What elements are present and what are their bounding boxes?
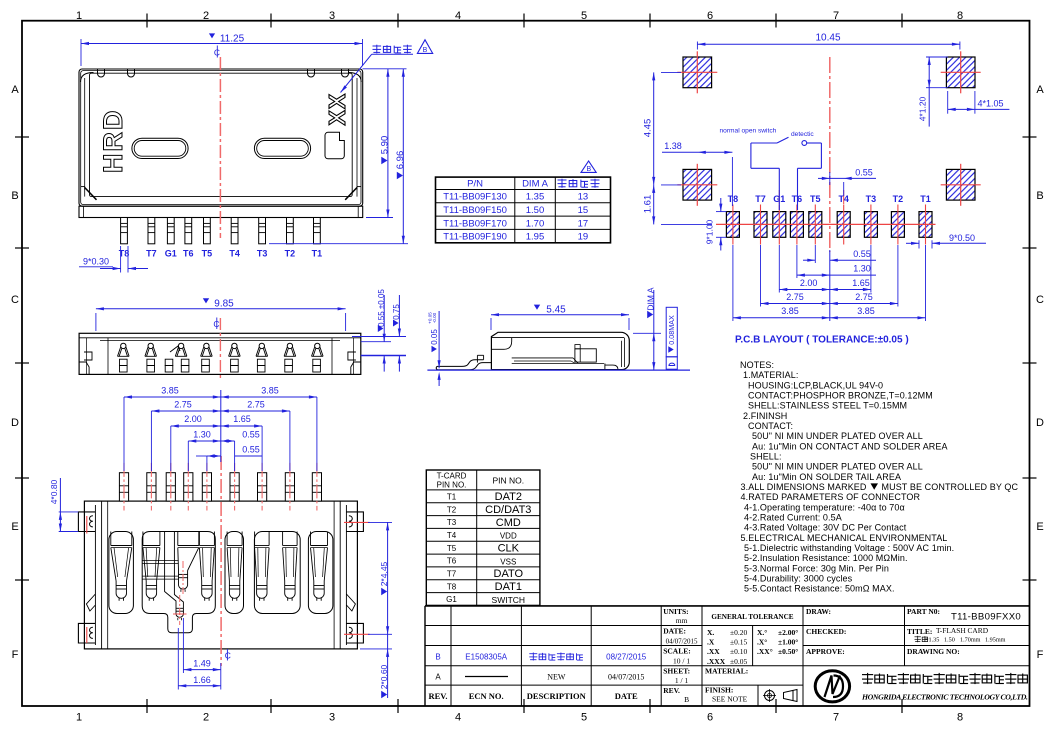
svg-text:T4: T4	[229, 249, 240, 259]
svg-text:T3: T3	[866, 194, 877, 204]
svg-text:4: 4	[455, 10, 461, 22]
svg-text:1.50: 1.50	[526, 205, 545, 216]
svg-text:T1: T1	[312, 249, 323, 259]
svg-text:MATERIAL:: MATERIAL:	[705, 667, 748, 676]
svg-text:E: E	[1036, 521, 1043, 533]
svg-text:T5: T5	[810, 194, 821, 204]
svg-text:T6: T6	[792, 194, 803, 204]
svg-text:.XX: .XX	[707, 647, 720, 656]
svg-text:CLK: CLK	[498, 543, 520, 555]
svg-text:REV.: REV.	[429, 691, 448, 701]
svg-text:T11-BB09F130: T11-BB09F130	[443, 192, 507, 203]
svg-text:5-1.Dielectric withstanding Vo: 5-1.Dielectric withstanding Voltage : 50…	[744, 543, 954, 553]
svg-text:T5: T5	[202, 249, 213, 259]
svg-text:±0.10: ±0.10	[730, 647, 747, 656]
svg-text:T3: T3	[447, 518, 457, 527]
svg-text:.XXX: .XXX	[707, 657, 726, 666]
svg-text:5-2.Insulation Resistance: 100: 5-2.Insulation Resistance: 1000 MΩMin.	[744, 553, 908, 563]
svg-text:normal open switch: normal open switch	[720, 128, 777, 135]
svg-text:B: B	[684, 695, 689, 704]
svg-text:DATO: DATO	[494, 568, 524, 580]
svg-text:11.25: 11.25	[220, 34, 245, 45]
svg-text:UNITS:: UNITS:	[663, 607, 688, 616]
svg-text:B: B	[1036, 190, 1043, 202]
svg-text:-0.00: -0.00	[432, 312, 437, 323]
svg-text:±0.05: ±0.05	[730, 657, 747, 666]
svg-text:2: 2	[203, 712, 209, 724]
svg-text:3.85: 3.85	[857, 306, 875, 316]
svg-text:2.75: 2.75	[786, 292, 804, 302]
svg-text:T2: T2	[447, 505, 457, 514]
svg-text:SCALE:: SCALE:	[663, 647, 691, 656]
svg-text:5.ELECTRICAL MECHANICAL ENVIRO: 5.ELECTRICAL MECHANICAL ENVIRONMENTAL	[741, 533, 948, 543]
svg-text:T8: T8	[447, 582, 457, 591]
svg-text:0.55 ±0.05: 0.55 ±0.05	[377, 289, 386, 327]
svg-text:T3: T3	[257, 249, 268, 259]
svg-text:PART N0:: PART N0:	[907, 607, 940, 616]
svg-text:T7: T7	[447, 570, 457, 579]
svg-text:4*1.05: 4*1.05	[977, 99, 1003, 109]
svg-text:6.96: 6.96	[395, 151, 406, 170]
svg-text:mm: mm	[676, 616, 688, 625]
svg-text:0.55: 0.55	[855, 168, 873, 178]
svg-text:1.30: 1.30	[853, 264, 871, 274]
svg-text:4-2.Rated Current: 0.5A: 4-2.Rated Current: 0.5A	[744, 513, 842, 523]
svg-text:1 / 1: 1 / 1	[675, 676, 689, 685]
svg-text:VSS: VSS	[500, 557, 516, 566]
svg-text:Au: 1u"Min ON SOLDER TAIL AREA: Au: 1u"Min ON SOLDER TAIL AREA	[752, 472, 901, 482]
svg-text:T1: T1	[447, 493, 457, 502]
svg-text:1.95mm: 1.95mm	[985, 637, 1006, 644]
svg-text:3: 3	[329, 10, 335, 22]
svg-text:P/N: P/N	[467, 179, 483, 190]
svg-text:1.65: 1.65	[233, 414, 251, 424]
svg-text:1.49: 1.49	[193, 659, 211, 669]
svg-text:04/07/2015: 04/07/2015	[608, 673, 644, 682]
svg-text:9*0.30: 9*0.30	[83, 257, 109, 267]
svg-text:13: 13	[578, 192, 589, 203]
svg-text:T2: T2	[285, 249, 296, 259]
svg-text:10 / 1: 10 / 1	[673, 657, 690, 666]
svg-text:HRD: HRD	[98, 109, 128, 174]
svg-text:8: 8	[957, 712, 963, 724]
svg-text:±2.00°: ±2.00°	[778, 628, 798, 637]
svg-text:1.70mm: 1.70mm	[960, 637, 981, 644]
svg-text:4*0.80: 4*0.80	[49, 479, 59, 504]
svg-text:T8: T8	[728, 194, 739, 204]
svg-text:X.: X.	[707, 628, 714, 637]
svg-text:±0.20: ±0.20	[730, 628, 747, 637]
svg-text:HOUSING:LCP,BLACK,UL 94V-0: HOUSING:LCP,BLACK,UL 94V-0	[748, 380, 883, 390]
svg-text:REV.: REV.	[663, 686, 680, 695]
svg-text:B: B	[11, 190, 18, 202]
svg-text:DIM A: DIM A	[645, 287, 655, 310]
svg-text:VDD: VDD	[500, 532, 517, 541]
svg-text:.XX°: .XX°	[757, 647, 773, 656]
svg-text:DRAW:: DRAW:	[806, 607, 831, 616]
svg-text:DESCRIPTION: DESCRIPTION	[527, 691, 587, 701]
svg-text:T-CARD: T-CARD	[437, 472, 467, 481]
svg-text:T7: T7	[146, 249, 157, 259]
svg-text:B: B	[435, 653, 440, 662]
svg-text:1: 1	[76, 712, 82, 724]
svg-text:50U" NI MIN UNDER PLATED OVER: 50U" NI MIN UNDER PLATED OVER ALL	[752, 431, 923, 441]
svg-text:E: E	[11, 521, 18, 533]
svg-text:3.85: 3.85	[161, 386, 179, 396]
svg-text:T1: T1	[920, 194, 931, 204]
svg-text:D: D	[1036, 417, 1044, 429]
svg-text:0.05: 0.05	[430, 329, 439, 345]
svg-text:=1.35: =1.35	[925, 637, 939, 644]
svg-text:2.00: 2.00	[184, 414, 202, 424]
svg-text:2.00: 2.00	[800, 278, 818, 288]
svg-text:.X°: .X°	[757, 638, 767, 647]
svg-text:9*0.50: 9*0.50	[949, 233, 975, 243]
svg-text:1.95: 1.95	[526, 232, 545, 243]
svg-text:MUST BE CONTROLLED BY QC: MUST BE CONTROLLED BY QC	[882, 482, 1019, 492]
svg-text:9.85: 9.85	[214, 299, 234, 310]
svg-text:0.55: 0.55	[853, 249, 871, 259]
svg-text:04/07/2015: 04/07/2015	[666, 638, 698, 646]
svg-text:5-4.Durability: 3000 cycles: 5-4.Durability: 3000 cycles	[744, 574, 853, 584]
svg-text:F: F	[1037, 649, 1044, 661]
svg-text:T4: T4	[447, 531, 457, 540]
svg-text:APPROVE:: APPROVE:	[806, 647, 845, 656]
svg-text:5: 5	[581, 712, 587, 724]
svg-text:2.FININSH: 2.FININSH	[743, 411, 787, 421]
svg-text:G1: G1	[165, 249, 177, 259]
svg-text:7: 7	[833, 10, 839, 22]
svg-text:1.61: 1.61	[642, 195, 653, 214]
svg-text:1.50: 1.50	[944, 637, 955, 644]
svg-text:08/27/2015: 08/27/2015	[606, 653, 647, 662]
svg-text:5.45: 5.45	[546, 305, 566, 316]
svg-text:T6: T6	[183, 249, 194, 259]
svg-text:B: B	[586, 166, 591, 173]
svg-text:0.55: 0.55	[242, 445, 260, 455]
svg-text:XX: XX	[324, 93, 350, 126]
svg-text:10.45: 10.45	[815, 33, 840, 44]
svg-text:8: 8	[957, 10, 963, 22]
svg-text:.X: .X	[707, 638, 715, 647]
svg-text:T11-BB09F190: T11-BB09F190	[443, 232, 507, 243]
svg-text:7: 7	[833, 712, 839, 724]
svg-text:2*0.60: 2*0.60	[379, 664, 389, 689]
svg-text:9*1.00: 9*1.00	[704, 219, 714, 244]
svg-text:T7: T7	[755, 194, 766, 204]
svg-text:CD/DAT3: CD/DAT3	[485, 504, 531, 516]
svg-text:SEE NOTE: SEE NOTE	[712, 695, 748, 704]
svg-text:T5: T5	[447, 544, 457, 553]
svg-text:4*1.20: 4*1.20	[918, 96, 928, 121]
svg-text:C: C	[1036, 294, 1044, 306]
svg-text:CHECKED:: CHECKED:	[806, 627, 846, 636]
svg-text:4-1.Operating temperature: -40: 4-1.Operating temperature: -40α to 70α	[744, 502, 905, 512]
svg-text:1.65: 1.65	[852, 278, 870, 288]
svg-text:3.85: 3.85	[781, 306, 799, 316]
svg-text:CMD: CMD	[496, 517, 521, 529]
svg-text:2.75: 2.75	[855, 292, 873, 302]
svg-text:C: C	[11, 294, 19, 306]
svg-text:SHELL:: SHELL:	[750, 452, 782, 462]
svg-text:1.38: 1.38	[664, 141, 682, 151]
svg-text:T2: T2	[893, 194, 904, 204]
svg-text:5: 5	[581, 10, 587, 22]
svg-text:A: A	[1036, 84, 1044, 96]
svg-text:DIM A: DIM A	[522, 179, 549, 190]
svg-text:SHEET:: SHEET:	[663, 667, 690, 676]
svg-text:DRAWING NO:: DRAWING NO:	[907, 647, 960, 656]
svg-text:±1.00°: ±1.00°	[778, 638, 798, 647]
svg-text:CONTACT:PHOSPHOR BRONZE,T=0.12: CONTACT:PHOSPHOR BRONZE,T=0.12MM	[748, 391, 933, 401]
svg-text:X.°: X.°	[757, 628, 767, 637]
svg-text:0.75: 0.75	[392, 304, 401, 320]
svg-text:PIN NO.: PIN NO.	[492, 476, 524, 486]
svg-text:HONGRIDA ELECTRONIC TECHNOLOGY: HONGRIDA ELECTRONIC TECHNOLOGY CO,LTD.	[861, 693, 1028, 702]
svg-text:4-3.Rated Voltage: 30V DC Per: 4-3.Rated Voltage: 30V DC Per Contact	[744, 523, 907, 533]
svg-text:1.70: 1.70	[526, 218, 545, 229]
svg-text:50U" NI MIN UNDER PLATED OVER: 50U" NI MIN UNDER PLATED OVER ALL	[752, 462, 923, 472]
svg-text:NEW: NEW	[547, 673, 566, 682]
svg-text:6: 6	[707, 10, 713, 22]
svg-text:B: B	[423, 47, 428, 54]
svg-text:T11-BB09F170: T11-BB09F170	[443, 218, 507, 229]
svg-text:6: 6	[707, 712, 713, 724]
svg-text:17: 17	[578, 218, 589, 229]
svg-text:DAT2: DAT2	[495, 491, 522, 503]
svg-text:2*4.45: 2*4.45	[379, 561, 389, 586]
svg-text:Au: 1u"Min ON CONTACT AND SOL: Au: 1u"Min ON CONTACT AND SOLDER AREA	[752, 441, 948, 451]
svg-text:1.66: 1.66	[193, 675, 211, 685]
svg-text:1: 1	[76, 10, 82, 22]
svg-text:T-FLASH CARD: T-FLASH CARD	[936, 626, 989, 635]
svg-text:SWITCH: SWITCH	[492, 595, 526, 605]
svg-text:PIN NO.: PIN NO.	[437, 481, 467, 490]
svg-text:4.45: 4.45	[642, 119, 653, 138]
svg-text:2.75: 2.75	[247, 400, 265, 410]
svg-text:0.55: 0.55	[242, 430, 260, 440]
svg-text:TITLE:: TITLE:	[907, 627, 932, 636]
svg-text:1.MATERIAL:: 1.MATERIAL:	[743, 370, 798, 380]
svg-text:A: A	[435, 673, 441, 682]
svg-text:5-3.Normal Force: 30g Min. P: 5-3.Normal Force: 30g Min. Per Pin	[744, 563, 889, 573]
svg-text:A: A	[11, 84, 19, 96]
svg-text:±0.50°: ±0.50°	[778, 647, 798, 656]
svg-text:F: F	[12, 649, 19, 661]
svg-text:5-5.Contact Resistance: 50mΩ M: 5-5.Contact Resistance: 50mΩ MAX.	[744, 584, 895, 594]
svg-text:NOTES:: NOTES:	[740, 360, 774, 370]
svg-text:2.75: 2.75	[174, 400, 192, 410]
svg-text:DATE:: DATE:	[663, 627, 686, 636]
svg-text:SHELL:STAINLESS STEEL T=0.15MM: SHELL:STAINLESS STEEL T=0.15MM	[748, 401, 907, 411]
svg-text:GENERAL TOLERANCE: GENERAL TOLERANCE	[711, 613, 793, 621]
svg-text:±0.15: ±0.15	[730, 638, 747, 647]
svg-text:detectic: detectic	[791, 131, 814, 138]
svg-text:DAT1: DAT1	[495, 581, 522, 593]
svg-text:ECN NO.: ECN NO.	[469, 691, 504, 701]
svg-text:3.ALL DIMENSIONS MARKED: 3.ALL DIMENSIONS MARKED	[741, 482, 867, 492]
svg-text:4: 4	[455, 712, 461, 724]
svg-text:DATE: DATE	[615, 691, 638, 701]
svg-text:19: 19	[578, 232, 589, 243]
svg-text:2: 2	[203, 10, 209, 22]
svg-text:4.RATED PARAMETERS OF CONNECTO: 4.RATED PARAMETERS OF CONNECTOR	[741, 492, 921, 502]
svg-text:CONTACT:: CONTACT:	[748, 421, 793, 431]
svg-text:15: 15	[578, 205, 589, 216]
svg-text:FINISH:: FINISH:	[705, 686, 733, 695]
svg-text:P.C.B LAYOUT ( TOLERANCE:±0.0: P.C.B LAYOUT ( TOLERANCE:±0.05 )	[735, 335, 909, 346]
svg-text:D: D	[11, 417, 19, 429]
svg-text:0.08MAX: 0.08MAX	[667, 315, 676, 345]
svg-text:5.90: 5.90	[380, 136, 391, 155]
svg-text:3: 3	[329, 712, 335, 724]
svg-text:G1: G1	[446, 595, 457, 604]
svg-text:T11-BB09F150: T11-BB09F150	[443, 205, 507, 216]
svg-text:1.35: 1.35	[526, 192, 545, 203]
svg-text:3.85: 3.85	[261, 386, 279, 396]
svg-text:C: C	[225, 651, 231, 661]
svg-text:1.30: 1.30	[193, 430, 211, 440]
svg-text:T11-BB09FXX0: T11-BB09FXX0	[951, 612, 1021, 623]
svg-text:T6: T6	[447, 557, 457, 566]
svg-text:E1508305A: E1508305A	[465, 653, 507, 662]
